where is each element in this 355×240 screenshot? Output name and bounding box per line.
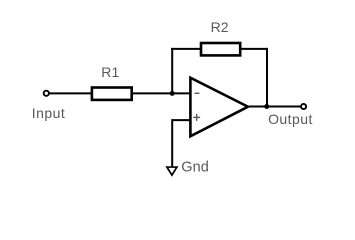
svg-text:R2: R2	[211, 19, 229, 35]
wire feedback top to R2	[171, 48, 201, 50]
svg-text:Gnd: Gnd	[181, 159, 209, 175]
wire op-amp output to output terminal	[248, 106, 302, 108]
ground	[167, 167, 177, 175]
wire op-amp non-inverting input to ground	[172, 120, 190, 166]
output terminal circle	[301, 104, 306, 109]
wire R2 to feedback right vertical	[240, 48, 268, 50]
wire feedback left vertical	[171, 48, 173, 94]
node output junction	[264, 104, 269, 109]
node junction feedback tap	[170, 91, 175, 96]
pin label - (inverting input)	[195, 92, 200, 94]
wire input terminal to R1	[49, 92, 92, 94]
input terminal circle	[44, 91, 49, 96]
pin label + (non-inverting input)	[193, 114, 200, 121]
op-amp U1 triangle	[190, 78, 248, 137]
svg-text:Output: Output	[268, 111, 313, 127]
resistor R1	[92, 88, 132, 100]
wire R1 to op-amp inverting input	[132, 92, 190, 94]
resistor R2	[201, 43, 240, 55]
svg-text:Input: Input	[32, 105, 65, 121]
wire feedback right vertical down to output node	[266, 48, 268, 107]
svg-text:R1: R1	[101, 64, 119, 80]
